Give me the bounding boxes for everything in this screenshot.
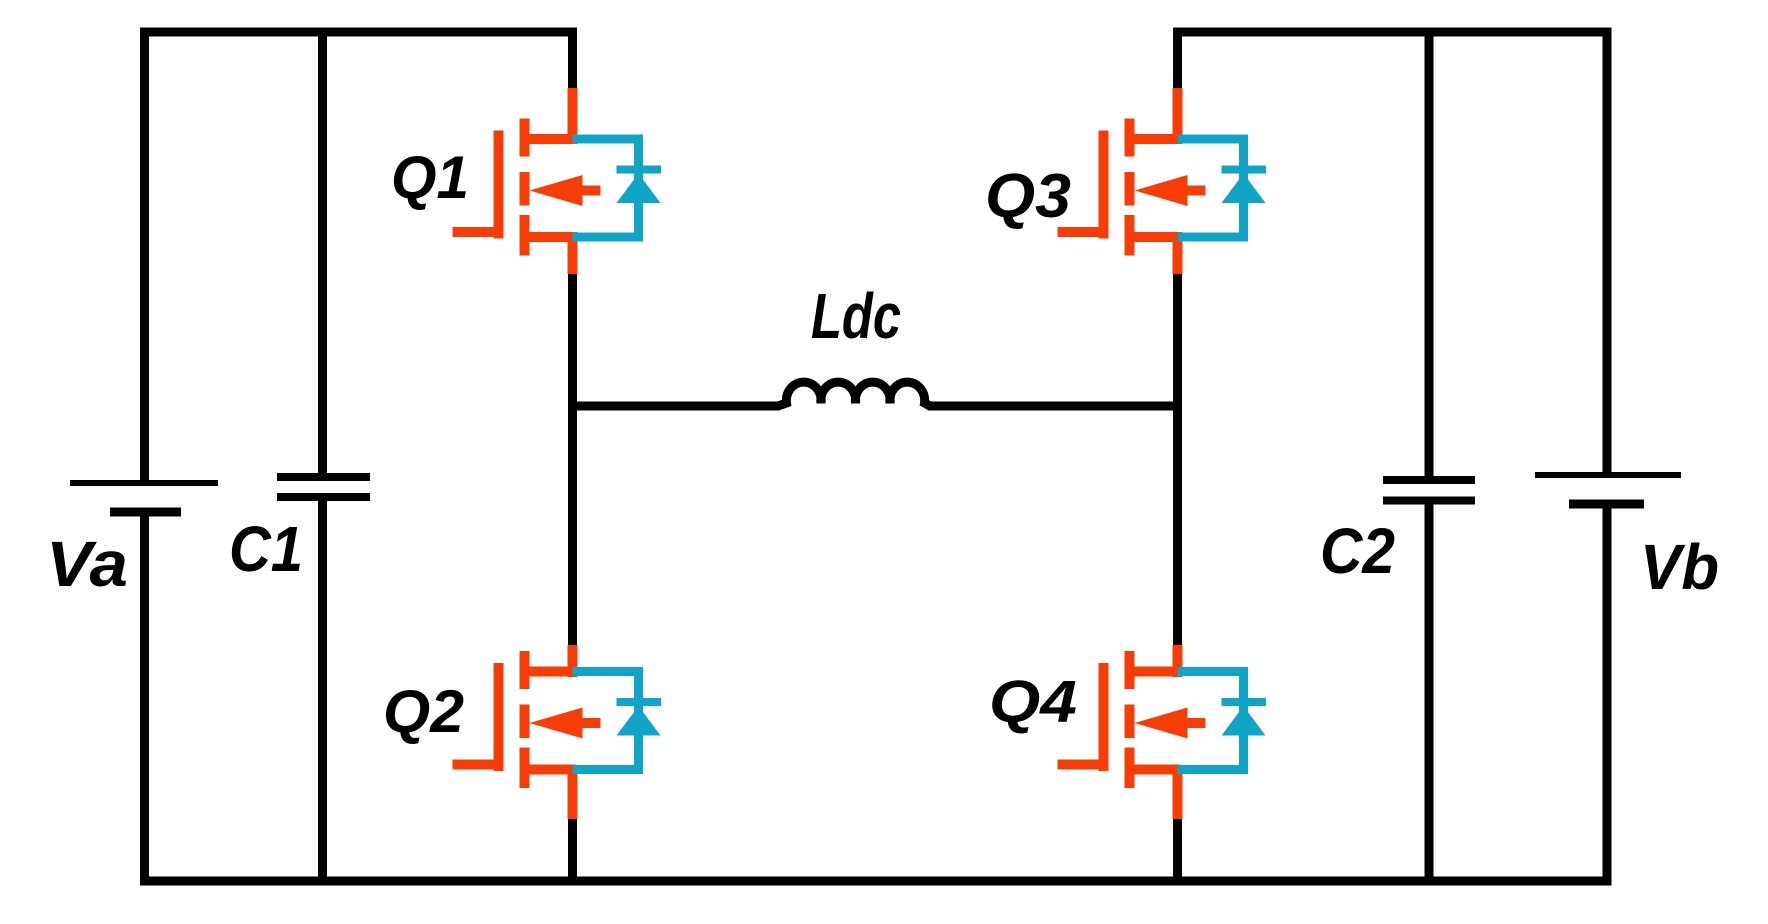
- transistor Q2: [453, 651, 601, 788]
- svg-text:Q1: Q1: [391, 144, 469, 211]
- transistor Q4: [1058, 651, 1206, 788]
- capacitor C2: [1383, 480, 1475, 501]
- svg-text:C1: C1: [229, 513, 303, 585]
- wire Va top: [140, 32, 149, 483]
- wire Q1 source stub: [568, 232, 578, 274]
- wire left branch middle: [568, 273, 577, 646]
- wire mid rail left: [573, 402, 781, 411]
- wire Q4 drain stub: [1173, 645, 1183, 677]
- wire C2 top: [1425, 32, 1434, 480]
- wire Q1 drain stub: [568, 88, 578, 144]
- wire C2 bottom: [1425, 500, 1434, 881]
- body diode of Q4: [1178, 672, 1267, 770]
- wire top-right rail: [1178, 28, 1608, 37]
- wire right branch middle: [1173, 273, 1182, 646]
- battery Vb: [1535, 475, 1681, 504]
- body diode of Q2: [573, 672, 662, 770]
- svg-text:Va: Va: [46, 528, 128, 600]
- inductor Ldc: [778, 382, 930, 406]
- transistor Q1: [453, 119, 601, 256]
- wire Vb bottom: [1603, 504, 1612, 881]
- battery Va: [70, 483, 218, 512]
- body diode of Q1: [573, 139, 662, 237]
- wire Va bottom: [140, 512, 149, 881]
- svg-text:Q3: Q3: [985, 162, 1071, 231]
- wire Q3 source stub: [1173, 232, 1183, 274]
- wire Q4 source stub: [1173, 765, 1183, 819]
- svg-text:Ldc: Ldc: [811, 280, 901, 352]
- transistor Q3: [1058, 119, 1206, 256]
- wire top-left rail: [145, 28, 573, 37]
- wire Q2 drain stub: [568, 645, 578, 677]
- wire C1 top: [318, 32, 327, 477]
- wire C1 bottom: [318, 497, 327, 881]
- svg-text:Q4: Q4: [989, 669, 1077, 735]
- svg-text:C2: C2: [1320, 515, 1395, 587]
- body diode of Q3: [1178, 139, 1267, 237]
- wire bottom rail: [145, 877, 1608, 886]
- svg-text:Q2: Q2: [383, 678, 464, 745]
- wire right branch top: [1173, 32, 1182, 91]
- wire Q2 source stub: [568, 765, 578, 819]
- wire Q3 drain stub: [1173, 88, 1183, 144]
- wire mid rail right: [928, 402, 1178, 411]
- wire left branch top: [568, 32, 577, 91]
- wire right branch bottom: [1173, 818, 1182, 881]
- wire Vb top: [1603, 32, 1612, 475]
- capacitor C1: [277, 477, 370, 497]
- svg-text:Vb: Vb: [1640, 531, 1719, 603]
- wire left branch bottom: [568, 818, 577, 881]
